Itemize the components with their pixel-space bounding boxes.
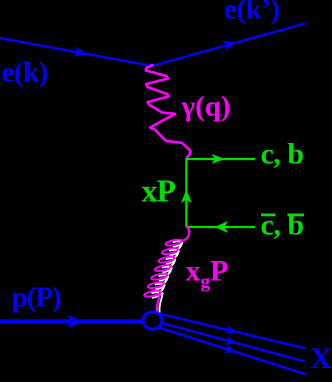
- wire hadron line 2: [157, 322, 305, 362]
- gluon coil white back strand: [151, 241, 182, 313]
- proton vertex blob: [143, 312, 162, 329]
- svg-text:γ(q): γ(q): [181, 91, 231, 123]
- wire incoming electron line: [0, 38, 152, 66]
- svg-text:X: X: [310, 342, 332, 375]
- arrow on incoming electron: [73, 47, 88, 57]
- wire proton line p(P): [0, 319, 146, 323]
- gluon coil magenta loops: [144, 227, 190, 313]
- arrow on hadron line 3: [224, 345, 236, 353]
- arrow on top quark line: [212, 154, 226, 164]
- svg-text:e(k’): e(k’): [224, 0, 279, 26]
- wire quark vertical line xP: [185, 159, 187, 227]
- wire hadron line 1: [157, 313, 305, 348]
- wire quark line c,b (top horizontal): [186, 158, 255, 160]
- arrow on hadron line 1: [225, 325, 237, 334]
- svg-text:c, b: c, b: [261, 209, 304, 242]
- wire outgoing electron line: [152, 24, 305, 67]
- arrow on bottom antiquark line (pointing left): [215, 221, 229, 233]
- photon wavy line gamma: [146, 65, 191, 159]
- arrow on outgoing electron: [222, 41, 237, 51]
- svg-text:c, b: c, b: [261, 138, 304, 171]
- arrow on proton line: [68, 315, 85, 328]
- svg-text:p(P): p(P): [12, 282, 62, 314]
- svg-text:e(k): e(k): [2, 57, 48, 89]
- svg-text:xP: xP: [142, 173, 176, 209]
- arrow on hadron line 2: [225, 336, 237, 345]
- arrow up on vertical quark line: [181, 190, 192, 204]
- wire antiquark line cbar,bbar (bottom horizontal): [186, 226, 255, 228]
- wire hadron line 3: [156, 327, 306, 375]
- overline on c: [261, 214, 276, 217]
- overline on b: [288, 214, 305, 217]
